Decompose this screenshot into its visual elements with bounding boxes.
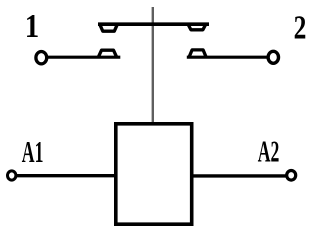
contact 1 fixed dome: [98, 50, 117, 58]
moving bridge wire: [98, 22, 209, 26]
actuator link vertical: [152, 7, 154, 122]
label 2: [294, 8, 307, 46]
terminal A1 circle: [8, 171, 16, 180]
terminal 1 circle: [36, 52, 47, 64]
contact 2 fixed dome: [189, 50, 207, 58]
moving contact cup left: [99, 24, 117, 32]
label A2: [258, 136, 280, 169]
svg-text:2: 2: [294, 8, 307, 46]
moving contact cup right: [188, 24, 206, 30]
terminal A2 circle: [287, 171, 296, 181]
svg-text:A1: A1: [22, 137, 44, 170]
label 1: [25, 7, 39, 45]
wire A1 to coil: [16, 174, 115, 177]
wire coil to A2: [193, 174, 287, 177]
coil K1 rectangle: [116, 124, 192, 224]
terminal 2 circle: [268, 51, 278, 63]
wire contact 2 to terminal 2: [187, 56, 268, 59]
label A1: [22, 137, 44, 170]
svg-text:A2: A2: [258, 136, 280, 169]
svg-text:1: 1: [25, 7, 39, 45]
wire terminal 1 to contact 1: [47, 56, 120, 59]
